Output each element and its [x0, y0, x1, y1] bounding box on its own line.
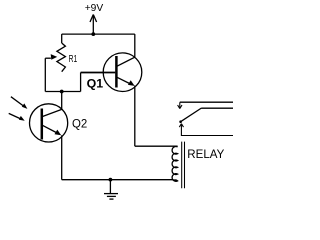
wire: Q1 emitter down	[134, 86, 136, 147]
phototransistor Q2	[29, 104, 67, 142]
relay contact NC down arrow	[178, 102, 182, 108]
wire: wiper down leg	[44, 58, 46, 91]
relay contact NC line	[180, 101, 233, 103]
wire: bottom ground rail	[62, 179, 174, 181]
node: ground junction	[109, 178, 113, 182]
wire: R1 top lead	[61, 34, 63, 43]
node: junction of +9V arrow and rail	[91, 32, 95, 36]
wire: junction down to Q2 collector	[61, 92, 63, 110]
wire: riser to Q1 base	[80, 73, 82, 92]
relay armature (movable contact)	[181, 108, 202, 122]
svg-text:Q1: Q1	[87, 77, 104, 91]
relay common wire with up arrow	[179, 124, 233, 136]
wire: Q2 emitter down	[61, 135, 63, 179]
ground	[104, 180, 118, 199]
svg-text:R1: R1	[69, 54, 78, 65]
wire: node bar under R1	[45, 91, 80, 93]
+9V supply arrow	[90, 15, 97, 34]
wire: to relay coil top	[135, 145, 178, 147]
relay coil	[172, 146, 177, 181]
wire: Q1 collector up to rail	[134, 34, 136, 57]
relay core lines	[182, 142, 185, 189]
svg-text:RELAY: RELAY	[187, 149, 224, 161]
svg-text:+9V: +9V	[85, 3, 104, 14]
R1 wiper arrow	[45, 54, 57, 60]
transistor Q1 (NPN)	[103, 53, 142, 92]
light arrow 1 into Q2	[11, 97, 28, 109]
resistor R1 (zigzag body)	[57, 43, 66, 72]
light arrow 2 into Q2	[9, 113, 25, 120]
relay contact NO line	[202, 107, 234, 109]
svg-text:Q2: Q2	[72, 116, 88, 130]
node: armature pivot	[179, 120, 182, 123]
wire: top +9V rail	[62, 33, 135, 35]
wire: Q1 base lead	[81, 72, 116, 74]
node: R1/wiper/Q2 junction	[60, 90, 64, 94]
